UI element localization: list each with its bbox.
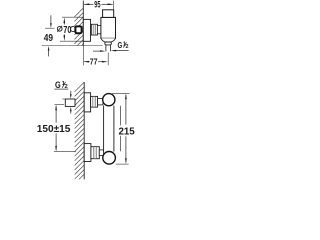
inlet neck (97, 26, 101, 34)
wall face line (top drawing) + 95/77 extension (82, 1, 84, 46)
dimension 95 line (84, 3, 112, 5)
outlet nut (105, 42, 111, 45)
dimension 150±15 line (55, 106, 57, 123)
body taper to outlet (101, 38, 116, 42)
wall hatch (bottom drawing) (75, 82, 85, 184)
dimension Ø70 label (57, 26, 62, 31)
dimension 77 line (84, 61, 103, 63)
supply pipe circle behind wall (70, 26, 75, 31)
bottom escutcheon (84, 144, 91, 162)
top neck (98, 99, 103, 105)
wall hatch (top drawing) (74, 8, 83, 53)
valve body (101, 17, 116, 38)
concealed union (thick rounded square) (75, 26, 81, 33)
svg-text:49: 49 (44, 33, 54, 44)
svg-text:2: 2 (126, 44, 129, 50)
stub G1/2 arrows (70, 91, 72, 95)
dimension 215 extension lines (112, 92, 130, 94)
bottom union nut circle (103, 152, 116, 165)
escutcheon (side view) (83, 19, 90, 41)
95 right extension line (113, 1, 115, 10)
supply stub in wall (65, 99, 75, 106)
svg-text:G: G (55, 80, 61, 90)
dimension 215 label (118, 125, 136, 135)
outer tube right edge (119, 106, 121, 152)
bottom hex nut (91, 147, 99, 159)
wall bottom border / 49 extension line (42, 45, 103, 47)
svg-text:150±15: 150±15 (37, 124, 71, 135)
top hex nut (91, 96, 98, 107)
svg-text:G: G (118, 41, 123, 50)
dimension 49 arrows (45, 27, 55, 29)
top escutcheon (front view) (84, 93, 90, 112)
dimension Ø70 arrows (63, 23, 65, 25)
dimension 150±15 extension lines (54, 103, 64, 105)
svg-text:77: 77 (90, 57, 98, 67)
valve cap (103, 10, 114, 18)
svg-text:70: 70 (63, 25, 72, 36)
dimension 215 line (125, 95, 127, 125)
wall face line (bottom drawing) (83, 82, 85, 179)
flush pipe (103, 106, 105, 152)
bottom neck (99, 150, 103, 156)
top union nut circle (103, 94, 115, 106)
dimension Ø70 extension lines (62, 16, 83, 18)
dimension 150±15 label (37, 123, 71, 133)
svg-text:95: 95 (94, 0, 100, 10)
G 1/2 outlet leader arrows (top drawing) (93, 50, 101, 52)
union nut (91, 24, 97, 35)
svg-text:215: 215 (119, 127, 136, 138)
77 right extension line (107, 53, 109, 66)
outlet stub walls (105, 45, 107, 51)
